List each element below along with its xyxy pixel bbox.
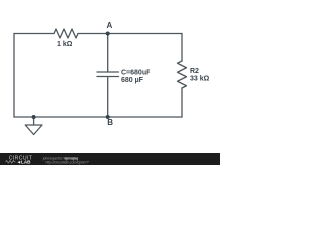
ground symbol — [25, 125, 42, 135]
capacitor C top plate — [97, 71, 119, 73]
svg-text:R2: R2 — [190, 68, 199, 75]
wire bottom — [14, 116, 182, 118]
svg-text:B: B — [107, 118, 113, 127]
wire right lower — [181, 88, 183, 117]
wire right upper — [181, 34, 183, 62]
resistor R2 — [178, 61, 187, 88]
svg-text:680 µF: 680 µF — [121, 77, 144, 84]
wire capacitor bottom lead — [107, 77, 109, 118]
resistor R1 — [54, 29, 78, 38]
wire left side — [13, 34, 15, 118]
svg-text:A: A — [107, 21, 113, 30]
svg-text:1 kΩ: 1 kΩ — [57, 41, 73, 48]
wire ground stub — [33, 117, 35, 125]
footer bar — [0, 153, 220, 165]
wire top-right segment — [78, 33, 182, 35]
svg-text:◄LAB: ◄LAB — [17, 159, 32, 164]
wire top-left segment — [14, 33, 54, 35]
ground junction dot — [32, 115, 36, 119]
svg-text:C=680uF: C=680uF — [121, 70, 151, 77]
capacitor C bottom plate — [97, 76, 119, 78]
node A junction dot — [106, 32, 110, 36]
node B junction dot — [106, 115, 110, 119]
svg-text:33 kΩ: 33 kΩ — [190, 76, 210, 83]
wire capacitor top lead — [107, 34, 109, 73]
svg-text:http://circuitlab.com/cjmk77: http://circuitlab.com/cjmk77 — [46, 161, 89, 165]
CircuitLab logo — [6, 155, 33, 164]
